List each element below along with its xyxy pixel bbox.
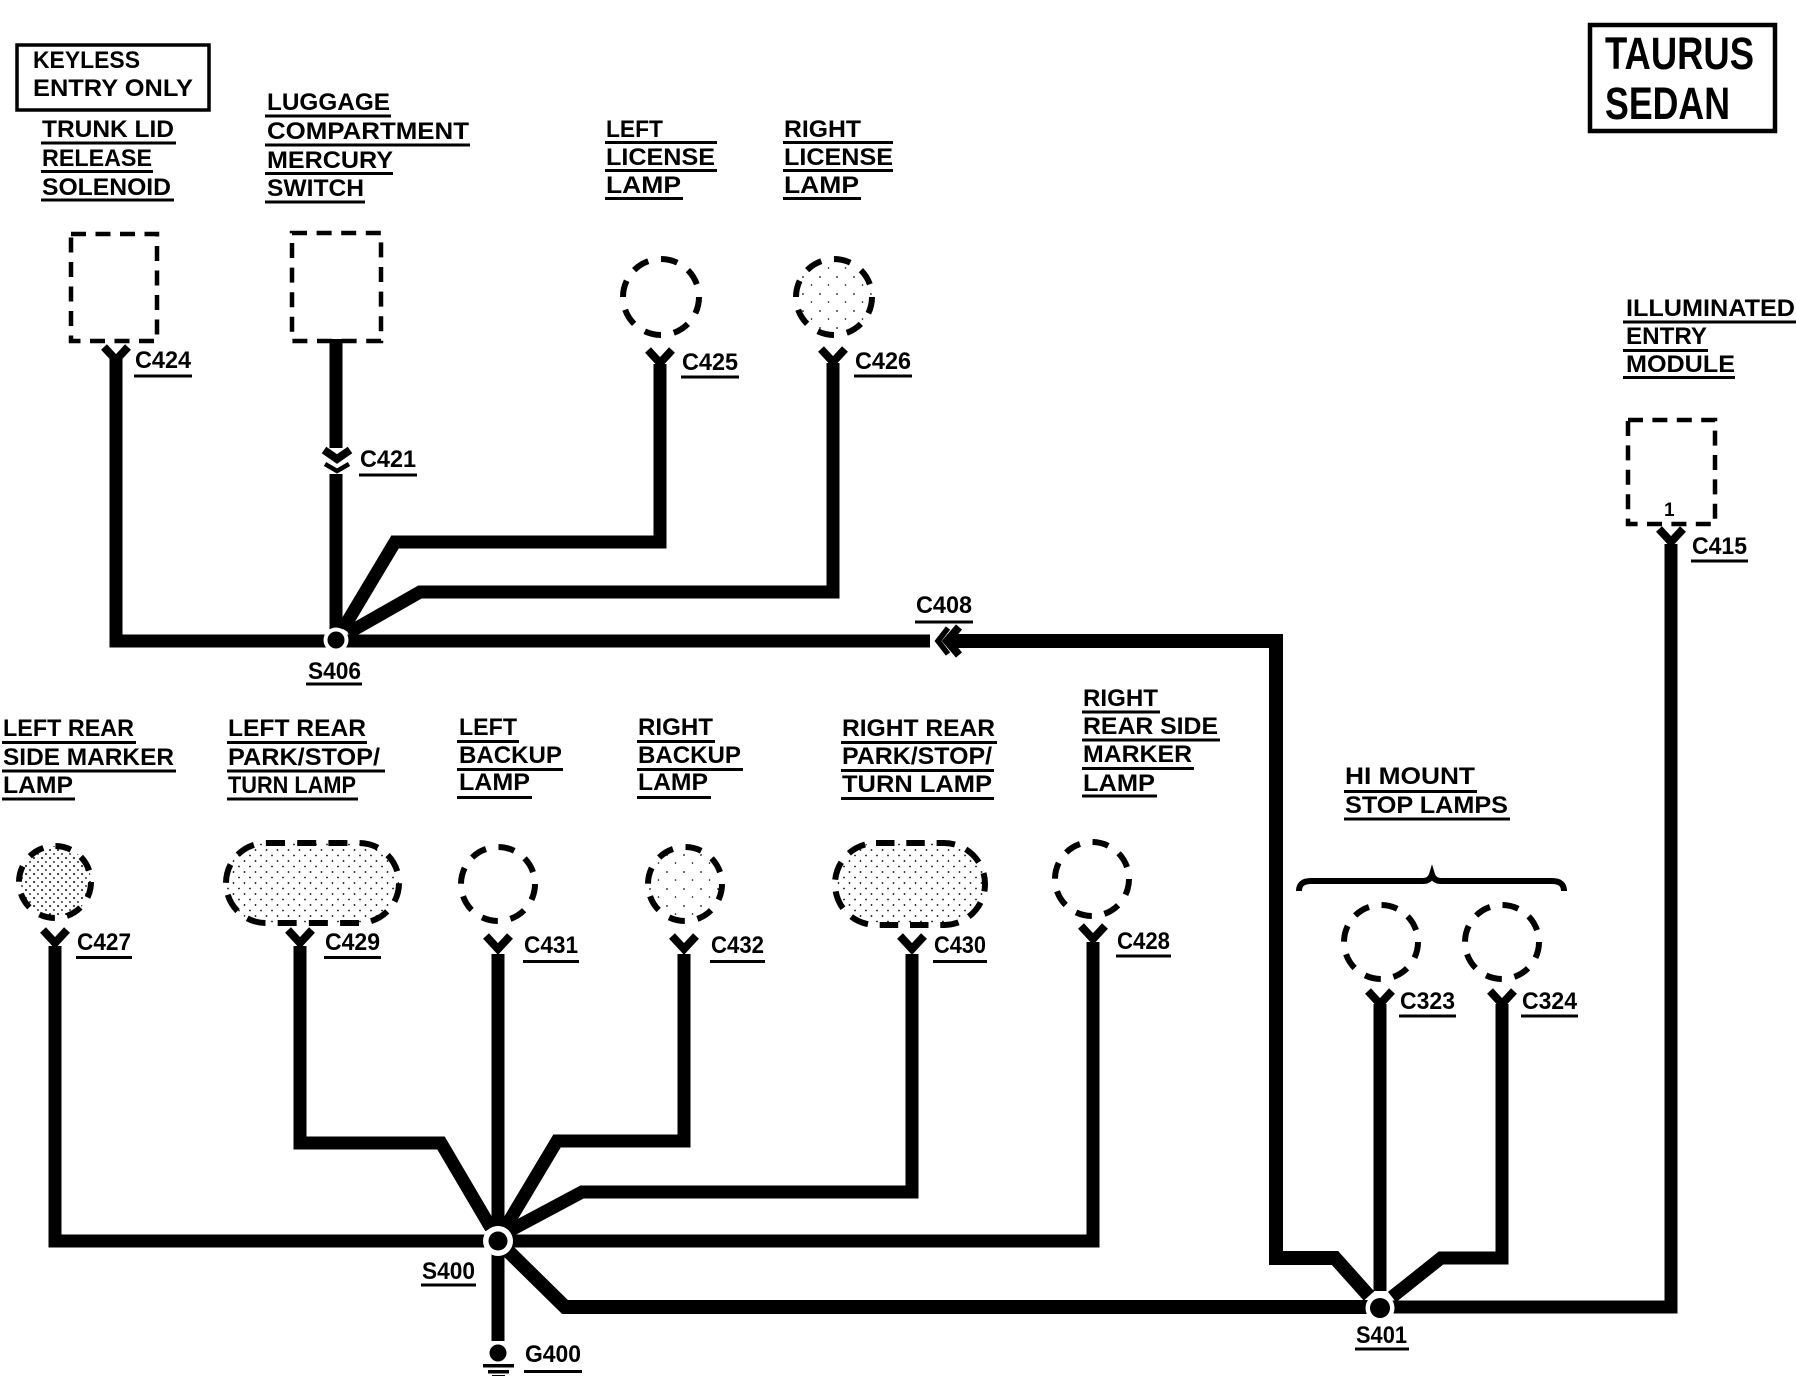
ground G400 symbol <box>483 1345 514 1376</box>
lamp circle C323 hi mount stop <box>1344 905 1418 979</box>
wire C323 hi mount stop lamp to S401 <box>1374 1004 1387 1291</box>
lamp circle C428 right rear side marker <box>1055 842 1129 916</box>
connector Y at C431 <box>486 936 510 949</box>
connector Y at C427 <box>43 930 67 943</box>
label C427 <box>76 929 132 959</box>
svg-text:RELEASE: RELEASE <box>42 145 152 172</box>
lamp stadium C430 right rear park/stop/turn <box>835 843 985 925</box>
svg-text:LAMP: LAMP <box>784 172 859 199</box>
wire C424 trunk-lid-release to S406 bus <box>116 358 930 641</box>
svg-text:C408: C408 <box>916 592 972 619</box>
svg-text:TAURUS: TAURUS <box>1605 28 1754 79</box>
svg-text:MODULE: MODULE <box>1626 351 1735 378</box>
component box illuminated entry module (dashed) <box>1628 420 1715 524</box>
svg-text:C323: C323 <box>1400 988 1455 1015</box>
svg-text:C324: C324 <box>1522 988 1578 1015</box>
connector Y at C430 <box>900 936 924 949</box>
label C323 <box>1399 988 1456 1018</box>
wire illuminated entry module C415 down to bottom bus corner <box>1392 544 1671 1307</box>
wire C324 hi mount stop lamp to S401 <box>1392 1004 1502 1297</box>
label C425 <box>681 349 739 379</box>
svg-text:LICENSE: LICENSE <box>784 144 893 171</box>
svg-text:SWITCH: SWITCH <box>267 175 364 202</box>
wire C429 left rear park/stop/turn to S400 <box>300 946 491 1228</box>
svg-text:SEDAN: SEDAN <box>1605 78 1730 129</box>
svg-text:ILLUMINATED: ILLUMINATED <box>1626 295 1795 322</box>
taurus sedan title box <box>1590 25 1775 131</box>
svg-text:RIGHT: RIGHT <box>638 714 713 741</box>
connector C408 inline symbol <box>938 627 959 655</box>
svg-text:S401: S401 <box>1356 1322 1407 1349</box>
svg-text:TURN LAMP: TURN LAMP <box>842 771 992 798</box>
svg-text:C431: C431 <box>524 932 578 959</box>
connector Y at C323 <box>1368 991 1392 1004</box>
connector Y at C432 <box>672 936 696 949</box>
label C415 <box>1691 533 1748 563</box>
connector Y at C415 <box>1659 529 1683 542</box>
svg-text:C424: C424 <box>135 347 192 374</box>
svg-text:REAR SIDE: REAR SIDE <box>1083 713 1218 740</box>
label right backup lamp <box>637 714 743 799</box>
connector Y at C429 <box>288 930 312 943</box>
svg-text:MERCURY: MERCURY <box>267 147 393 174</box>
svg-text:LAMP: LAMP <box>3 772 73 799</box>
wire S400 to C428 right rear side marker <box>511 942 1093 1241</box>
label C431 <box>523 932 579 963</box>
lamp stadium C429 left rear park/stop/turn <box>226 843 399 923</box>
svg-text:LEFT: LEFT <box>606 116 663 143</box>
wire right license lamp C426 to S406 <box>348 363 833 633</box>
label illuminated entry module <box>1623 295 1796 379</box>
svg-text:SOLENOID: SOLENOID <box>42 174 171 201</box>
svg-text:TURN LAMP: TURN LAMP <box>228 772 356 799</box>
label G400 <box>524 1341 582 1373</box>
svg-text:G400: G400 <box>525 1341 581 1368</box>
svg-text:SIDE MARKER: SIDE MARKER <box>3 744 174 771</box>
lamp circle C432 right backup <box>648 847 722 921</box>
wire left license lamp C425 to S406 <box>343 364 660 629</box>
svg-text:1: 1 <box>1664 500 1675 521</box>
svg-text:RIGHT: RIGHT <box>1083 685 1158 712</box>
label trunk lid release solenoid <box>41 116 176 202</box>
wire S400 to ground G400 <box>492 1253 505 1341</box>
svg-text:S406: S406 <box>308 658 361 685</box>
connector Y at C425 <box>648 350 672 363</box>
svg-text:ENTRY: ENTRY <box>1626 323 1707 350</box>
label C430 <box>933 932 987 963</box>
label hi mount stop lamps <box>1344 763 1510 821</box>
label left license lamp <box>605 116 717 200</box>
splice S401 <box>1366 1294 1395 1323</box>
label left rear park/stop/turn lamp <box>227 715 385 801</box>
connector Y at C324 <box>1490 991 1514 1004</box>
label right rear park/stop/turn lamp <box>841 715 997 800</box>
connector Y at C426 <box>821 349 845 362</box>
svg-text:LAMP: LAMP <box>459 769 530 796</box>
svg-text:C427: C427 <box>77 929 131 956</box>
keyless entry only box <box>17 45 209 110</box>
svg-text:RIGHT REAR: RIGHT REAR <box>842 715 995 742</box>
label left backup lamp <box>457 714 563 799</box>
svg-text:STOP LAMPS: STOP LAMPS <box>1345 792 1508 819</box>
svg-text:C430: C430 <box>934 932 986 959</box>
svg-text:PARK/STOP/: PARK/STOP/ <box>842 743 992 770</box>
component box luggage compartment mercury switch (dashed) <box>292 233 381 341</box>
label C428 <box>1116 928 1171 958</box>
label C421 <box>359 446 417 477</box>
lamp circle C426 right license <box>796 259 872 335</box>
svg-text:C415: C415 <box>1692 533 1747 560</box>
svg-text:KEYLESS: KEYLESS <box>33 47 140 74</box>
label C429 <box>324 929 381 959</box>
label luggage compartment mercury switch <box>265 89 470 204</box>
connector Y at C424 <box>104 347 128 360</box>
label C324 <box>1521 988 1578 1018</box>
label C426 <box>854 348 912 378</box>
lamp circle C427 left rear side marker <box>19 846 91 918</box>
component box trunk lid release solenoid (dashed) <box>71 234 157 341</box>
svg-text:MARKER: MARKER <box>1083 741 1192 768</box>
splice S406 <box>324 628 349 653</box>
svg-text:LEFT REAR: LEFT REAR <box>228 715 366 742</box>
wire C427 left rear side marker to S400 <box>55 946 485 1241</box>
brace hi mount stop lamps <box>1299 875 1564 892</box>
lamp circle C324 hi mount stop <box>1465 905 1539 979</box>
svg-text:LICENSE: LICENSE <box>606 144 715 171</box>
svg-text:BACKUP: BACKUP <box>638 742 741 769</box>
label right rear side marker lamp <box>1082 685 1220 798</box>
svg-text:TRUNK LID: TRUNK LID <box>42 116 174 143</box>
svg-text:COMPARTMENT: COMPARTMENT <box>267 118 469 145</box>
label right license lamp <box>783 116 893 200</box>
label C424 <box>134 347 192 378</box>
svg-text:LEFT REAR: LEFT REAR <box>3 715 134 742</box>
lamp circle C425 left license <box>623 259 699 335</box>
wire C421 to S406 <box>330 474 343 630</box>
svg-text:LAMP: LAMP <box>1083 770 1155 797</box>
svg-text:C429: C429 <box>325 929 380 956</box>
svg-text:RIGHT: RIGHT <box>784 116 861 143</box>
svg-text:S400: S400 <box>422 1258 475 1285</box>
wire luggage mercury switch to C421 <box>330 339 343 448</box>
connector Y at C428 <box>1081 926 1105 939</box>
svg-text:ENTRY ONLY: ENTRY ONLY <box>33 75 193 102</box>
wire C432 right backup lamp to S400 <box>505 954 684 1228</box>
svg-text:C421: C421 <box>360 446 416 473</box>
splice S400 <box>483 1226 513 1256</box>
wire C431 left backup lamp to S400 <box>492 954 505 1227</box>
lamp circle C431 left backup <box>461 847 535 921</box>
label S400 <box>421 1258 476 1287</box>
svg-text:C428: C428 <box>1117 928 1170 955</box>
wire S406 bus right segment to corner and down to S401 <box>952 641 1369 1296</box>
wire bottom bus S400 to S401 <box>505 1248 1368 1307</box>
svg-text:C432: C432 <box>711 932 764 959</box>
svg-text:PARK/STOP/: PARK/STOP/ <box>228 744 380 771</box>
svg-text:C426: C426 <box>855 348 911 375</box>
svg-text:C425: C425 <box>682 349 738 376</box>
svg-text:LUGGAGE: LUGGAGE <box>267 89 390 116</box>
label C432 <box>710 932 765 963</box>
svg-text:HI MOUNT: HI MOUNT <box>1345 763 1475 790</box>
label left rear side marker lamp <box>2 715 176 801</box>
label S406 <box>306 658 362 686</box>
label C408 <box>915 592 973 624</box>
connector C421 inline symbol <box>324 450 350 471</box>
label S401 <box>1355 1322 1409 1351</box>
svg-text:LAMP: LAMP <box>606 172 681 199</box>
svg-text:LEFT: LEFT <box>459 714 517 741</box>
svg-text:BACKUP: BACKUP <box>459 742 562 769</box>
wire C430 right rear park/stop/turn to S400 <box>509 954 912 1231</box>
svg-text:LAMP: LAMP <box>638 769 708 796</box>
